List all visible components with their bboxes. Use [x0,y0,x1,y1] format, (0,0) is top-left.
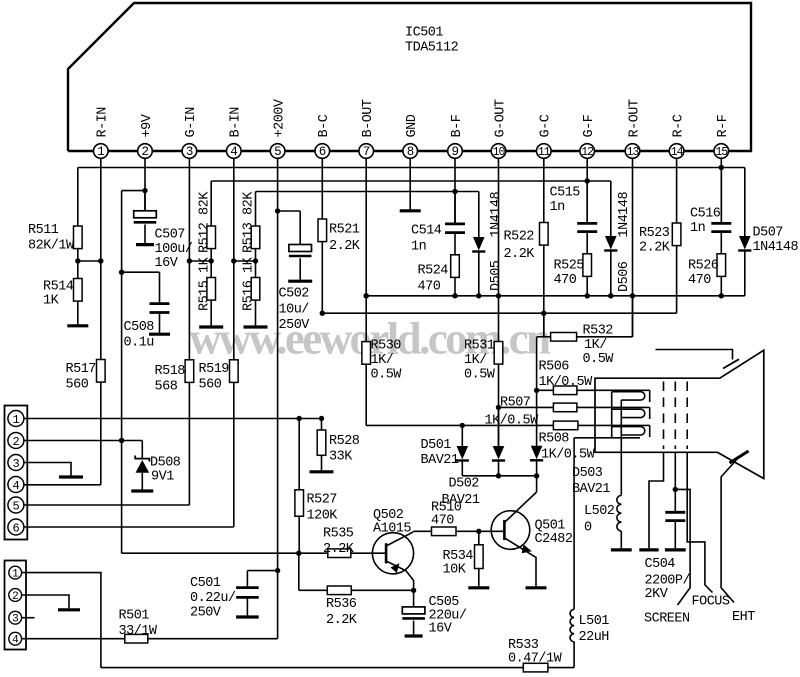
svg-text:R518: R518 [155,364,186,379]
svg-text:R517: R517 [66,362,97,377]
wire pin11 column [543,158,545,222]
capacitor C516 [720,168,722,223]
diode D502 BAV21 [498,407,500,446]
resistor R533 [523,663,548,672]
CRT anode tick [730,451,749,463]
svg-text:SCREEN: SCREEN [644,612,690,627]
node IC pin 2 +9V [138,144,153,159]
ground R534 [468,586,489,589]
node CN2 pin 2 [9,589,22,602]
svg-text:0.5W: 0.5W [371,368,403,383]
resistor R510 [414,530,432,532]
svg-text:3: 3 [13,457,20,471]
resistor R531 [494,342,503,365]
node IC pin 12 G-F [580,144,595,159]
wire pin15 column [720,158,722,223]
svg-text:250V: 250V [279,318,311,333]
node rail junction dots [719,165,724,170]
node CN1 pin 3 [8,455,24,471]
svg-text:C502: C502 [279,287,310,302]
svg-text:R535: R535 [323,527,354,542]
svg-text:1n: 1n [690,221,705,236]
svg-text:0.1u: 0.1u [124,336,154,351]
svg-text:R514: R514 [43,280,74,295]
wire R511-R514 junction to pin1 [78,260,101,262]
wire C502 branch from pin5 [278,210,301,212]
transistor Q501 C2482 [491,511,530,550]
svg-text:9: 9 [451,145,458,159]
resistor R515 [207,278,216,301]
svg-text:1: 1 [97,145,104,159]
node IC pin 7 B-OUT [359,144,374,159]
svg-text:R525: R525 [554,259,585,274]
svg-text:1K/: 1K/ [371,353,394,368]
resistor R501 [125,634,148,643]
wire pin5 column [277,158,279,570]
svg-text:1n: 1n [411,240,426,255]
wire rail feedback y296 [366,295,745,297]
svg-text:33/1W: 33/1W [119,624,158,639]
svg-text:4: 4 [12,635,19,647]
svg-text:C508: C508 [124,320,155,335]
CRT neck outline [595,378,720,452]
svg-text:D506: D506 [617,261,632,292]
svg-text:R506: R506 [539,360,570,375]
svg-text:R530: R530 [371,339,402,354]
resistor R530 [362,342,371,365]
wire pin6 column [321,158,323,219]
wire pin4 to R513 junction [234,260,256,262]
svg-text:1n: 1n [550,200,565,215]
zener diode D508 9V1 [141,441,143,459]
svg-text:D501: D501 [421,438,452,453]
ground Q501 emitter [526,586,547,589]
wire C508 branch [122,271,160,273]
svg-text:16V: 16V [155,256,179,271]
node IC pin 8 GND [403,144,418,159]
resistor R508 [366,424,554,426]
svg-text:L502: L502 [584,504,615,519]
svg-text:R508: R508 [539,432,570,447]
svg-text:R-F: R-F [716,114,731,137]
svg-text:1K/: 1K/ [464,353,487,368]
wire CN2-1 line [22,573,101,668]
svg-text:D508: D508 [150,456,181,471]
ground grid1 [639,548,658,551]
connector CN1 box [5,406,28,540]
svg-text:1K: 1K [43,294,60,309]
svg-text:C2482: C2482 [535,532,573,547]
wire CN1-3 ground lead [24,463,71,476]
node CN1 pin 2 [8,433,24,449]
svg-text:2.2K: 2.2K [323,542,355,557]
wire EHT lead [721,457,739,603]
wire pin7 column [365,158,367,341]
resistor R518 [185,360,194,383]
svg-text:2.2K: 2.2K [329,239,361,254]
wire pin3 to R512 junction [189,260,211,262]
node IC pin 14 R-C [669,144,684,159]
svg-text:4: 4 [13,479,20,493]
svg-text:R-IN: R-IN [96,107,111,138]
node D503 column [536,337,538,446]
svg-text:2: 2 [12,591,18,603]
svg-text:C501: C501 [190,576,221,591]
wire pin9 column [454,158,456,223]
node CN2 pin 3 [9,611,22,624]
svg-text:2.2K: 2.2K [639,241,671,256]
svg-text:R513 82K: R513 82K [242,191,257,253]
svg-text:FOCUS: FOCUS [692,595,730,610]
svg-text:R524: R524 [418,264,449,279]
resistor R534 [478,531,480,545]
svg-text:470: 470 [688,273,711,288]
CRT heater loop 1 [612,392,645,400]
svg-text:2.2K: 2.2K [326,613,358,628]
svg-text:C504: C504 [645,557,676,572]
svg-text:G-F: G-F [582,114,597,137]
svg-text:0.47/1W: 0.47/1W [508,652,563,667]
resistor R507 [499,406,554,408]
diode D507 1N4148 [744,168,746,237]
CRT cathode bus left [611,392,613,438]
wire CN1-1 line [24,418,322,420]
svg-text:BAV21: BAV21 [421,453,459,468]
svg-text:L501: L501 [579,614,610,629]
resistor R522 [540,223,549,246]
ground CN1-3 [59,475,83,478]
capacitor C502 [299,211,301,245]
svg-text:12: 12 [581,146,594,159]
wire diode bottoms [462,475,536,477]
wire pin14 column [676,158,678,223]
diode D503 BAV21 [531,446,543,460]
svg-text:1N4148: 1N4148 [753,240,799,255]
wire CN2-2 ground lead [22,595,69,608]
svg-text:R515 1K: R515 1K [197,256,212,311]
svg-text:R531: R531 [464,339,495,354]
node IC pin 6 B-C [315,144,330,159]
resistor R516 [251,278,260,301]
ground R528 [310,470,334,473]
svg-text:1: 1 [13,413,20,427]
svg-text:TDA5112: TDA5112 [405,41,459,56]
svg-text:120K: 120K [307,509,339,524]
wire FOCUS lead [687,452,712,592]
svg-text:33K: 33K [329,450,353,465]
wire pin13 column [632,158,634,336]
CRT grid dashed lines [663,382,665,450]
CRT heater loop 3 [612,427,645,435]
svg-text:5: 5 [274,145,281,159]
svg-text:R527: R527 [307,493,338,508]
svg-text:470: 470 [431,514,454,529]
ground R515 [199,325,223,328]
node CN1 pin 6 [8,519,24,535]
svg-text:82K/1W: 82K/1W [28,239,75,254]
resistor R506 [537,389,554,391]
svg-text:D507: D507 [753,226,784,241]
wire CN1-6 line [24,526,234,528]
svg-text:2: 2 [13,435,20,449]
wire pin10 column [498,158,500,341]
svg-text:R512 82K: R512 82K [197,191,212,253]
svg-text:100u/: 100u/ [155,242,193,257]
svg-text:568: 568 [155,380,178,395]
node IC pin 13 R-OUT [625,144,640,159]
svg-text:D505: D505 [489,260,504,291]
resistor R532 [537,336,551,338]
resistor R524 [454,233,456,255]
svg-text:D503: D503 [572,466,603,481]
wire Q501 collector [536,476,538,492]
svg-text:2.2K: 2.2K [504,247,536,262]
svg-text:13: 13 [627,146,640,159]
node IC pin 11 G-C [537,144,552,159]
node IC pin 3 G-IN [182,144,197,159]
svg-text:R516 1K: R516 1K [242,256,257,311]
svg-text:1N4148: 1N4148 [489,191,504,237]
wire pin12 column [586,158,588,223]
svg-text:3: 3 [186,145,193,159]
svg-text:1K/0.5W: 1K/0.5W [541,448,596,463]
wire +9V column [121,191,123,554]
CRT funnel and screen face [717,350,764,478]
ground R516 [244,325,268,328]
svg-text:C515: C515 [550,186,581,201]
resistor R514 [74,279,83,302]
svg-text:0.22u/: 0.22u/ [190,591,236,606]
wire CN1-5 line [24,504,190,506]
ground R514 [67,324,88,327]
resistor R517 [97,360,106,383]
svg-text:R519: R519 [199,362,230,377]
CRT heater loop 2 [612,409,645,417]
svg-text:560: 560 [66,378,89,393]
svg-text:R511: R511 [28,223,59,238]
wire pin4 column [233,158,235,359]
CRT internal coating line [656,350,733,360]
svg-text:R507: R507 [500,396,531,411]
svg-text:R521: R521 [329,223,360,238]
capacitor C508 [159,272,161,303]
svg-text:2KV: 2KV [645,587,669,602]
wire CN2-3 stub [22,617,35,619]
node IC pin 4 B-IN [227,144,242,159]
diode D505 1N4148 [478,192,480,238]
node CN2 pin 4 [9,632,22,645]
node IC pin 10 G-OUT [491,144,506,159]
wire bottom return line [101,667,523,669]
svg-text:R523: R523 [639,226,670,241]
svg-text:250V: 250V [190,606,222,621]
wire rail G-F y181 [211,180,611,182]
svg-text:0.5W: 0.5W [583,352,615,367]
capacitor C504 2200P/2KV [674,452,676,511]
resistor R526 [720,232,722,254]
svg-text:+200V: +200V [272,98,287,137]
svg-text:GND: GND [405,114,420,137]
wire L501 top link [574,437,640,439]
node IC pin 9 B-F [448,144,463,159]
svg-text:+9V: +9V [140,113,155,137]
svg-text:1N4148: 1N4148 [617,191,632,237]
svg-text:EHT: EHT [732,610,755,625]
ground CN2-2 [58,608,80,611]
resistor R511 [77,168,79,227]
svg-text:5: 5 [13,499,20,513]
capacitor C505 [413,590,415,607]
svg-text:0: 0 [584,521,592,536]
node CN1 pin 5 [8,497,24,513]
svg-text:C514: C514 [411,224,442,239]
wire +9V to base line [122,552,328,554]
svg-text:R501: R501 [119,609,150,624]
wire SCREEN lead [675,489,690,605]
capacitor C515 [586,181,588,223]
svg-text:R528: R528 [329,434,360,449]
svg-text:2: 2 [141,145,148,159]
svg-text:IC501: IC501 [405,26,443,41]
svg-text:10: 10 [493,146,506,159]
wire CN1-4 line [24,484,101,486]
svg-text:BAV21: BAV21 [572,482,610,497]
wire CN2-4 line [22,638,125,640]
svg-text:6: 6 [319,145,326,159]
resistor R523 [672,223,681,246]
svg-text:B-F: B-F [450,114,465,137]
svg-text:11: 11 [538,146,551,159]
svg-text:B-OUT: B-OUT [361,99,376,137]
svg-text:1K/0.5W: 1K/0.5W [485,414,540,429]
wire pin1 column [100,158,102,359]
node CN1 pin 1 [8,411,24,427]
svg-text:0.5W: 0.5W [464,368,496,383]
wire pin8 column [409,158,411,209]
svg-text:1K/0.5W: 1K/0.5W [539,375,594,390]
connector CN2 box [5,561,27,650]
svg-text:470: 470 [554,273,577,288]
svg-text:R526: R526 [688,259,719,274]
CRT heater lead [620,400,622,495]
resistor R525 [586,232,588,254]
svg-text:15: 15 [715,146,728,159]
resistor R535 [328,549,351,558]
wire grid1 lead to ground [649,452,664,548]
resistor R528 [321,419,323,431]
svg-text:B-IN: B-IN [229,107,244,138]
op-amp IC501 TDA5112 outline [68,3,751,151]
capacitor C514 [454,192,456,224]
diode D501 BAV21 [461,425,463,446]
node IC pin 15 R-F [714,144,729,159]
resistor R521 [318,219,327,242]
svg-text:14: 14 [671,146,684,159]
svg-text:1: 1 [12,569,19,581]
inductor L502 0 [617,495,621,504]
ground pin8 GND [400,209,421,212]
svg-text:560: 560 [199,378,222,393]
svg-text:22uH: 22uH [579,630,610,645]
transistor Q502 A1015 [372,533,413,574]
resistor R512 [210,181,212,226]
diode D506 1N4148 [610,181,612,236]
svg-text:R536: R536 [326,597,357,612]
svg-text:16V: 16V [429,622,453,637]
wire rail clamp y313 [322,312,676,314]
svg-text:B-C: B-C [317,114,332,137]
wire rail B-F y191.5 [256,191,479,193]
resistor R527 [298,419,300,490]
CRT internal coating tick [723,359,739,368]
svg-text:10K: 10K [443,563,467,578]
svg-text:G-C: G-C [539,114,554,137]
resistor R536 [298,553,300,590]
wire +9V branch from pin2 [122,190,145,192]
svg-text:G-OUT: G-OUT [493,99,508,137]
svg-text:C516: C516 [690,207,721,222]
svg-text:R532: R532 [583,324,614,339]
svg-text:7: 7 [363,145,370,159]
node CN2 pin 1 [9,566,22,579]
capacitor C507 [144,191,146,211]
node IC pin 5 +200V [270,144,285,159]
svg-text:1K/: 1K/ [584,338,607,353]
svg-text:R522: R522 [504,230,535,245]
wire rail R-F y168 [78,167,745,169]
svg-text:R-C: R-C [671,114,686,137]
node CN1 pin 4 [8,477,24,493]
svg-text:D502: D502 [449,477,480,492]
resistor R519 [230,360,239,383]
svg-text:8: 8 [407,145,414,159]
svg-text:9V1: 9V1 [151,470,174,485]
wire CN1-2 line [24,440,142,442]
svg-text:3: 3 [12,614,18,626]
svg-text:4: 4 [230,145,237,159]
capacitor C501 [247,570,277,572]
svg-text:R-OUT: R-OUT [627,99,642,137]
svg-text:470: 470 [418,280,441,295]
resistor R513 [255,192,257,227]
svg-text:10u/: 10u/ [279,303,310,318]
wire pin11 jog to R532 line [543,313,545,337]
svg-text:G-IN: G-IN [184,107,199,138]
node IC pin 1 R-IN [94,144,109,159]
svg-text:6: 6 [13,521,20,535]
svg-text:A1015: A1015 [373,522,411,537]
inductor L501 22uH [573,642,575,668]
svg-text:C507: C507 [155,228,186,243]
wire pin2 column [144,158,146,211]
wire pin3 column [188,158,190,359]
